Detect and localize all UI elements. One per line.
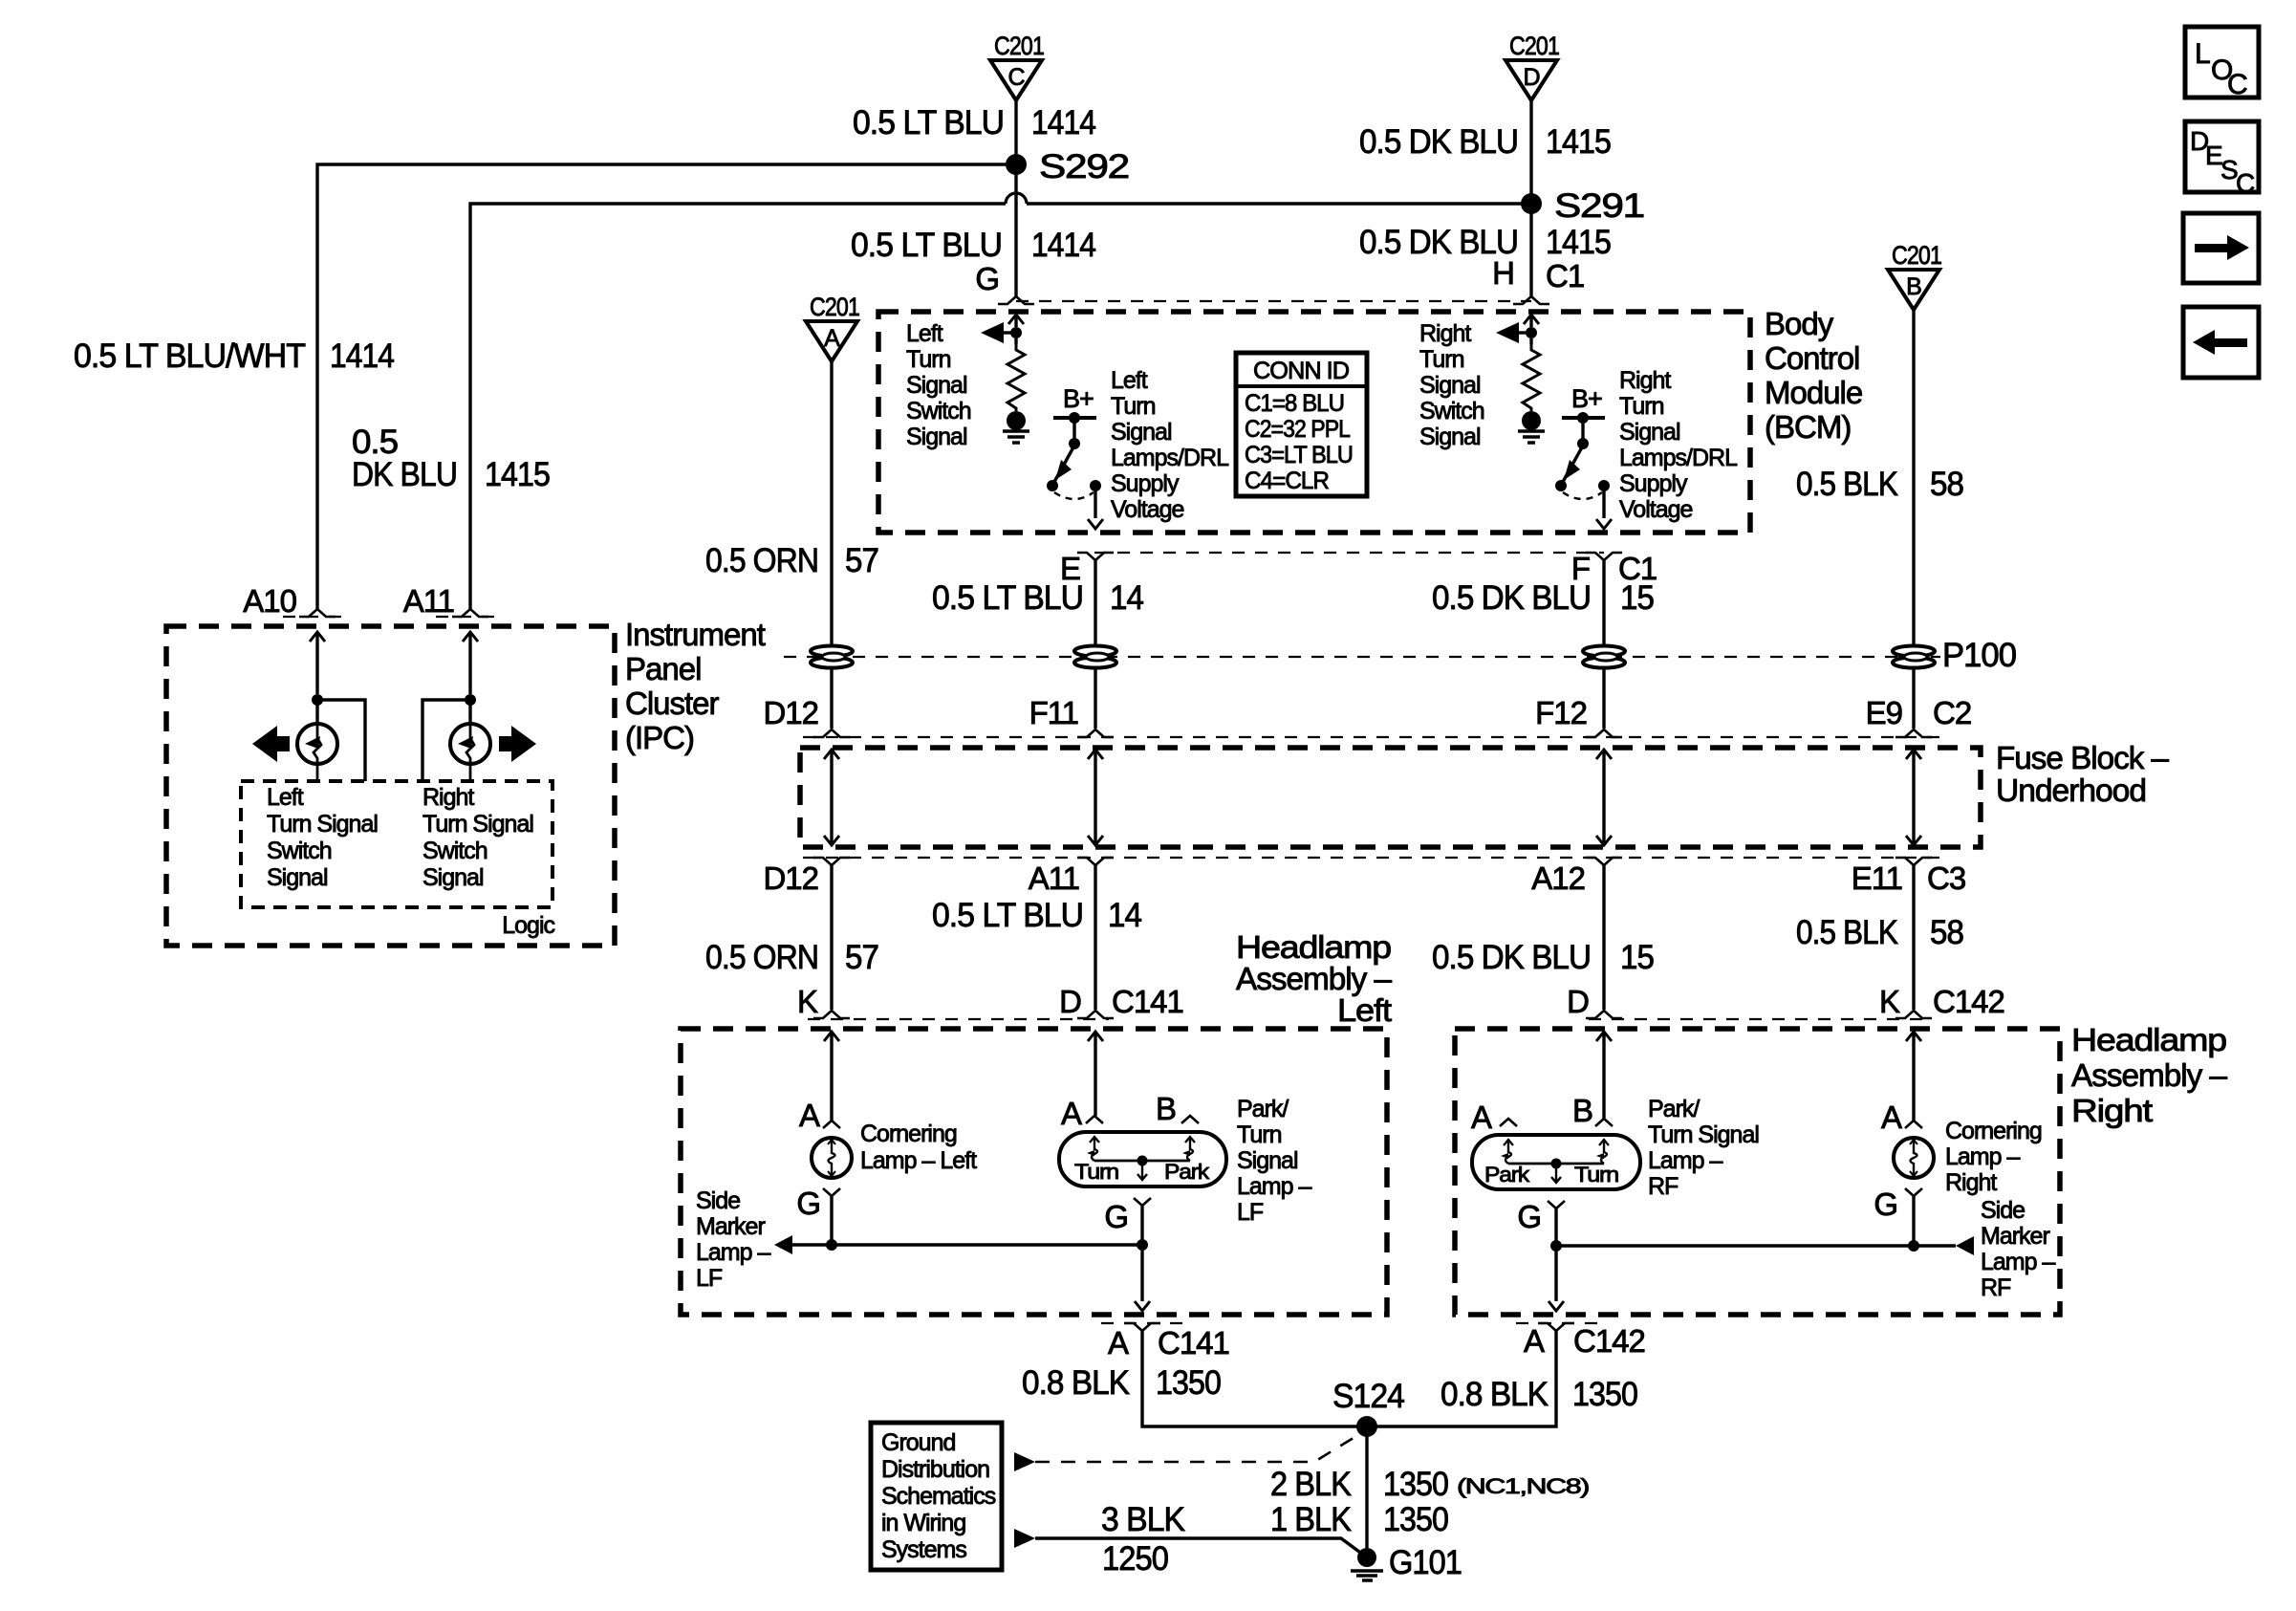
svg-text:B+: B+ [1063, 384, 1094, 413]
svg-text:C: C [2236, 168, 2255, 198]
svg-text:1350: 1350 [1572, 1376, 1637, 1413]
svg-text:C141: C141 [1112, 984, 1183, 1019]
svg-text:Switch: Switch [1419, 398, 1484, 425]
svg-text:0.5 BLK: 0.5 BLK [1796, 466, 1898, 503]
svg-text:Marker: Marker [696, 1213, 765, 1240]
ground symbol right (BCM) [1522, 411, 1541, 430]
svg-text:Turn: Turn [1619, 393, 1664, 420]
IPC logic dashed box [241, 781, 552, 907]
svg-text:15: 15 [1620, 939, 1654, 976]
wire from left switch output to E [1094, 490, 1096, 518]
svg-text:G: G [1104, 1199, 1128, 1234]
svg-text:Assembly –: Assembly – [1236, 961, 1393, 996]
svg-text:0.5 LT BLU: 0.5 LT BLU [932, 579, 1083, 617]
svg-text:1414: 1414 [330, 337, 394, 375]
C141 bottom connector dashed stub [1101, 1322, 1185, 1324]
wire from junction down to C141-A [1140, 1245, 1143, 1301]
svg-text:Turn Signal: Turn Signal [1648, 1121, 1759, 1148]
fuse block feed-through arrow at x=870 [824, 750, 839, 759]
park/turn signal lamp right (stadium) [1472, 1135, 1640, 1189]
connector chevron F11 top [1077, 729, 1114, 737]
svg-text:1415: 1415 [485, 456, 550, 493]
svg-text:(IPC): (IPC) [625, 720, 694, 755]
svg-text:0.5 DK BLU: 0.5 DK BLU [1432, 939, 1591, 976]
wire 1415 from C201-D to S291 [1529, 100, 1532, 198]
svg-text:D12: D12 [763, 860, 818, 896]
connector chevron A11 bottom [1077, 858, 1114, 865]
svg-text:Switch: Switch [267, 838, 332, 864]
svg-text:A: A [1524, 1323, 1545, 1359]
svg-text:K: K [797, 984, 818, 1019]
svg-text:Turn: Turn [1574, 1163, 1618, 1186]
connector chevron A11 (IPC) [452, 609, 488, 617]
grommet P100 on wire 15 [1583, 646, 1625, 668]
grommet P100 on wire 57 [811, 646, 853, 668]
connector chevron K left [813, 1011, 850, 1018]
junction dot park/turn G left [1137, 1239, 1148, 1251]
svg-text:C1=8 BLU: C1=8 BLU [1245, 390, 1344, 417]
svg-text:Park/: Park/ [1237, 1096, 1289, 1122]
svg-text:Switch: Switch [422, 838, 487, 864]
connector chevron D right [1586, 1011, 1622, 1018]
svg-text:15: 15 [1620, 579, 1654, 617]
connector chevron D left [1077, 1011, 1114, 1018]
svg-text:C2: C2 [1933, 695, 1971, 730]
wire 1414 from C201-C to S292 [1014, 100, 1017, 159]
grommet P100 on wire 58 [1893, 646, 1935, 668]
connector chevron E11 bottom [1895, 858, 1932, 865]
svg-text:Panel: Panel [625, 651, 701, 686]
Instrument Panel Cluster dashed box [166, 626, 615, 946]
svg-text:C2=32 PPL: C2=32 PPL [1245, 416, 1351, 443]
svg-text:Signal: Signal [906, 424, 967, 450]
wire 14 from E to fuse block [1094, 560, 1096, 729]
P100 pass-through dashed line [784, 656, 1940, 658]
svg-text:Cluster: Cluster [625, 686, 720, 721]
svg-text:Signal: Signal [422, 864, 484, 891]
svg-text:Signal: Signal [1619, 419, 1680, 446]
svg-text:(BCM): (BCM) [1765, 409, 1851, 445]
right headlamp input arrows [1596, 1032, 1612, 1041]
svg-text:G101: G101 [1389, 1544, 1462, 1581]
dashed reference line to ground distribution [1035, 1433, 1361, 1462]
DESC icon box [2185, 121, 2259, 192]
connector chevron E9 top [1895, 729, 1932, 737]
svg-text:1 BLK: 1 BLK [1270, 1501, 1352, 1538]
svg-text:0.5 LT BLU/WHT: 0.5 LT BLU/WHT [74, 337, 306, 375]
wire G cornering right down [1912, 1196, 1915, 1246]
left turn arrow icon [252, 726, 290, 762]
branch wires to logic [317, 700, 365, 781]
left turn indicator lamp (circle) [315, 700, 318, 724]
ground G101 [1357, 1548, 1376, 1567]
wire 1414 from S292 down to BCM G [1014, 164, 1017, 296]
svg-text:1414: 1414 [1031, 104, 1095, 142]
Headlamp Assembly Left dashed box [681, 1029, 1387, 1315]
svg-text:Instrument: Instrument [625, 617, 766, 652]
fuse block feed-through arrow at x=1678 [1596, 750, 1612, 759]
svg-text:Signal: Signal [1419, 424, 1481, 450]
ground symbol left (BCM) [1007, 411, 1026, 430]
svg-text:Underhood: Underhood [1996, 773, 2146, 808]
right turn indicator lamp (circle) [468, 700, 471, 724]
svg-text:1350: 1350 [1383, 1501, 1448, 1538]
svg-text:C: C [2227, 69, 2247, 100]
svg-text:C3: C3 [1927, 860, 1965, 896]
svg-text:C3=LT BLU: C3=LT BLU [1245, 442, 1353, 468]
svg-text:Right: Right [1945, 1169, 1997, 1196]
svg-text:Side: Side [1981, 1197, 2025, 1224]
svg-text:Turn: Turn [906, 346, 951, 373]
svg-text:0.5 ORN: 0.5 ORN [705, 542, 818, 579]
svg-text:DK BLU: DK BLU [352, 456, 457, 493]
svg-text:C142: C142 [1933, 984, 2004, 1019]
svg-text:Signal: Signal [1237, 1147, 1298, 1174]
switch blade left [1054, 446, 1074, 482]
wire G cornering to marker junction [830, 1196, 833, 1245]
svg-text:Signal: Signal [1419, 372, 1481, 399]
wire 57 from C201-A down to fuse block [830, 361, 833, 729]
svg-text:Left: Left [906, 320, 943, 347]
Fuse Block Underhood dashed box [800, 748, 1981, 847]
svg-text:Fuse Block –: Fuse Block – [1996, 740, 2170, 775]
svg-text:C201: C201 [994, 32, 1044, 60]
cornering lamp left (circle) [812, 1138, 852, 1178]
svg-text:58: 58 [1930, 914, 1963, 951]
svg-text:A10: A10 [243, 583, 296, 619]
svg-text:F11: F11 [1029, 695, 1078, 730]
svg-text:0.8 BLK: 0.8 BLK [1022, 1364, 1130, 1402]
left headlamp input arrows [824, 1032, 839, 1041]
fuse block feed-through arrow at x=2002 [1906, 750, 1921, 759]
svg-text:Park: Park [1484, 1163, 1530, 1186]
svg-text:S124: S124 [1332, 1378, 1405, 1415]
svg-text:57: 57 [845, 542, 878, 579]
svg-text:1250: 1250 [1102, 1540, 1168, 1578]
svg-text:Ground: Ground [881, 1429, 955, 1456]
BCM left input arrow and node [1008, 315, 1024, 324]
connector chevron C141-A [1124, 1323, 1160, 1331]
wire 57 from fuse to left headlamp [830, 865, 833, 1010]
Body Control Module dashed box [878, 312, 1750, 533]
junction dot left indicator [312, 694, 323, 706]
svg-text:G: G [1517, 1199, 1541, 1234]
svg-text:0.5 LT BLU: 0.5 LT BLU [853, 104, 1004, 142]
svg-text:Schematics: Schematics [881, 1483, 996, 1510]
svg-text:LF: LF [1237, 1199, 1264, 1226]
resistor left turn switch signal [1014, 338, 1017, 344]
connector chevron K right [1895, 1011, 1932, 1018]
connector chevron F12 top [1586, 729, 1622, 737]
svg-text:Turn: Turn [1074, 1160, 1118, 1184]
BCM C1 connector dashed line at top [1016, 300, 1531, 302]
svg-text:Signal: Signal [1111, 419, 1172, 446]
svg-text:Left: Left [267, 784, 304, 811]
svg-text:C201: C201 [810, 293, 859, 321]
svg-text:Headlamp: Headlamp [1236, 929, 1391, 965]
svg-text:Distribution: Distribution [881, 1456, 989, 1483]
lamp pin cup B park/turn right [1595, 1119, 1613, 1126]
junction dot cornering G right [1908, 1240, 1919, 1252]
wire 15 from F to fuse block [1602, 560, 1605, 729]
svg-text:Left: Left [1111, 367, 1148, 394]
side marker arrow right [1956, 1236, 1974, 1255]
svg-text:Voltage: Voltage [1111, 496, 1184, 523]
CONN ID table box [1236, 353, 1367, 496]
svg-text:B: B [1572, 1093, 1592, 1128]
svg-text:Cornering: Cornering [1945, 1118, 2042, 1144]
connector chevron F below BCM [1586, 553, 1622, 560]
svg-text:14: 14 [1108, 897, 1142, 934]
svg-text:Module: Module [1765, 375, 1862, 410]
svg-text:B: B [1906, 273, 1921, 300]
wire 58 from C201-B down to fuse block [1912, 310, 1915, 729]
svg-text:Marker: Marker [1981, 1223, 2049, 1250]
svg-text:A: A [824, 325, 840, 352]
svg-text:Systems: Systems [881, 1536, 966, 1563]
lamp pin cup G cornering right [1905, 1188, 1922, 1196]
connector chevron D12 bottom [813, 858, 850, 865]
arrow to ground distribution (dashed) [1014, 1452, 1035, 1471]
side marker arrow left [774, 1235, 792, 1254]
wire from junction down to C142-A [1554, 1246, 1557, 1301]
connector chevron G into BCM [998, 296, 1034, 304]
lamp pin cup G park/turn right [1548, 1201, 1565, 1208]
wire from S291 to IPC right (1415) with hop over 1414 wire [1027, 202, 1531, 205]
cornering lamp right (circle) [1894, 1138, 1934, 1178]
Ground Distribution Schematics box [871, 1423, 1002, 1570]
switch blade right [1563, 446, 1583, 482]
IPC connector dashed stubs [283, 616, 505, 618]
lamp pin cup A cornering right [1905, 1121, 1922, 1128]
svg-text:1350: 1350 [1383, 1466, 1448, 1503]
svg-text:Signal: Signal [906, 372, 967, 399]
grommet P100 on wire 14 [1074, 646, 1116, 668]
connector chevron E below BCM [1077, 553, 1114, 560]
svg-text:E9: E9 [1866, 695, 1902, 730]
BCM right input arrow and node [1524, 315, 1539, 324]
svg-text:Turn Signal: Turn Signal [267, 811, 378, 838]
wire C141-A to S124 [1142, 1331, 1367, 1426]
lamp pin cup G cornering left [823, 1188, 840, 1196]
svg-text:C142: C142 [1573, 1323, 1645, 1359]
Headlamp Assembly Right dashed box [1455, 1029, 2060, 1315]
arrow from ground distribution (solid) [1014, 1529, 1035, 1548]
svg-text:0.5 BLK: 0.5 BLK [1796, 914, 1898, 951]
lamp pin cup G park/turn left [1134, 1198, 1151, 1206]
svg-text:G: G [1874, 1186, 1897, 1222]
svg-text:Switch: Switch [906, 398, 971, 425]
svg-text:Park: Park [1164, 1160, 1210, 1184]
svg-text:L: L [2195, 38, 2210, 70]
svg-text:Turn: Turn [1237, 1121, 1282, 1148]
svg-text:C201: C201 [1509, 32, 1559, 60]
side marker branch wire right [1556, 1244, 1956, 1247]
right arrow icon box [2183, 213, 2259, 283]
svg-text:S292: S292 [1039, 148, 1129, 185]
svg-text:Supply: Supply [1111, 470, 1180, 497]
wire C142-A to S124 [1367, 1331, 1556, 1426]
svg-text:(NC1,NC8): (NC1,NC8) [1457, 1474, 1589, 1498]
svg-text:P100: P100 [1942, 637, 2017, 674]
connector chevron C142-A [1538, 1323, 1574, 1331]
lamp pin cup A park/turn left [1086, 1116, 1103, 1123]
svg-text:G: G [796, 1186, 820, 1221]
connector chevron H into BCM [1513, 296, 1549, 304]
svg-text:0.5 LT BLU: 0.5 LT BLU [932, 897, 1083, 934]
svg-text:RF: RF [1648, 1173, 1679, 1200]
junction dot cornering G left [826, 1239, 837, 1251]
lamp pin cup A park/turn right [1500, 1119, 1517, 1126]
svg-text:1415: 1415 [1546, 224, 1611, 261]
svg-text:D: D [1059, 984, 1081, 1019]
svg-text:Lamp – Left: Lamp – Left [860, 1147, 977, 1174]
svg-text:58: 58 [1930, 466, 1963, 503]
svg-text:RF: RF [1981, 1274, 2011, 1301]
svg-text:Right: Right [2071, 1093, 2153, 1128]
svg-text:A: A [1471, 1099, 1492, 1135]
svg-text:CONN ID: CONN ID [1253, 358, 1349, 384]
wire 1415 from S291 down to BCM H [1529, 204, 1532, 296]
IPC input arrows [310, 632, 325, 642]
svg-text:H: H [1492, 255, 1514, 291]
connector chevron A10 [299, 609, 336, 617]
C142 bottom connector dashed stub [1516, 1322, 1600, 1324]
svg-text:B: B [1156, 1091, 1176, 1126]
svg-text:C1: C1 [1546, 258, 1584, 294]
svg-text:Lamps/DRL: Lamps/DRL [1111, 445, 1229, 471]
svg-text:D: D [1523, 64, 1539, 91]
svg-text:LF: LF [696, 1265, 723, 1292]
BCM C1 connector dashed line at bottom [1094, 552, 1604, 554]
svg-text:A: A [1061, 1096, 1082, 1131]
svg-text:S291: S291 [1554, 187, 1644, 225]
splice S124 [1356, 1416, 1377, 1437]
svg-text:A: A [799, 1098, 820, 1133]
wire 58 from fuse to right headlamp [1912, 865, 1915, 1010]
svg-text:0.8 BLK: 0.8 BLK [1440, 1376, 1549, 1413]
wire G park/turn right down [1554, 1208, 1557, 1246]
svg-text:Lamp –: Lamp – [696, 1239, 770, 1266]
C141 connector dashed line [808, 1018, 1109, 1020]
connector chevron D12 top [813, 729, 850, 737]
left arrow icon box [2183, 307, 2259, 378]
right turn arrow icon [499, 726, 536, 762]
svg-text:Right: Right [1419, 320, 1471, 347]
svg-text:Lamp –: Lamp – [1648, 1147, 1722, 1174]
svg-text:0.5 LT BLU: 0.5 LT BLU [851, 227, 1002, 264]
svg-text:E11: E11 [1852, 860, 1902, 896]
svg-text:Side: Side [696, 1187, 740, 1214]
svg-text:Lamp –: Lamp – [1945, 1143, 2020, 1170]
wire 14 from fuse to left headlamp [1094, 865, 1096, 1010]
lamp pin cup A cornering left [823, 1121, 840, 1128]
svg-text:Cornering: Cornering [860, 1121, 957, 1147]
svg-text:Turn: Turn [1111, 393, 1156, 420]
wire from S292 to IPC left (1414) [317, 164, 1016, 609]
svg-text:D12: D12 [763, 695, 818, 730]
splice S291 [1521, 193, 1542, 214]
svg-text:Headlamp: Headlamp [2071, 1022, 2226, 1057]
svg-text:1350: 1350 [1156, 1364, 1221, 1402]
junction dot right indicator [465, 694, 476, 706]
svg-text:0.5 ORN: 0.5 ORN [705, 939, 818, 976]
svg-text:Lamp –: Lamp – [1237, 1173, 1311, 1200]
fuse block bottom connector dashed line [803, 857, 1940, 859]
svg-text:A: A [1881, 1099, 1902, 1135]
svg-text:A11: A11 [1029, 860, 1079, 896]
lamp pin cup B park/turn left [1181, 1116, 1199, 1123]
svg-text:0.5 DK BLU: 0.5 DK BLU [1432, 579, 1591, 617]
svg-text:C: C [1007, 64, 1025, 91]
svg-text:Left: Left [1337, 992, 1392, 1028]
side marker branch wire left [791, 1243, 1142, 1246]
svg-text:D: D [1567, 984, 1589, 1019]
svg-text:A: A [1108, 1325, 1129, 1361]
junction dot park/turn G right [1550, 1240, 1562, 1252]
wire from right switch output to F [1602, 490, 1605, 518]
park/turn signal lamp left (stadium) [1059, 1132, 1226, 1186]
svg-text:3 BLK: 3 BLK [1101, 1501, 1185, 1538]
svg-text:Control: Control [1765, 340, 1859, 376]
svg-text:C4=CLR: C4=CLR [1245, 468, 1329, 494]
svg-text:Lamps/DRL: Lamps/DRL [1619, 445, 1738, 471]
wire 3 BLK 1250 to G101 [1035, 1538, 1363, 1555]
wire S124 down to G101 [1365, 1426, 1368, 1557]
svg-text:F12: F12 [1535, 695, 1587, 730]
svg-text:C141: C141 [1158, 1325, 1229, 1361]
svg-text:in Wiring: in Wiring [881, 1510, 965, 1536]
svg-text:Lamp –: Lamp – [1981, 1249, 2055, 1275]
svg-text:Body: Body [1765, 306, 1834, 341]
svg-text:G: G [975, 261, 999, 296]
svg-text:Turn Signal: Turn Signal [422, 811, 533, 838]
connector chevron A12 bottom [1586, 858, 1622, 865]
fuse block feed-through arrow at x=1146 [1088, 750, 1103, 759]
svg-text:Right: Right [1619, 367, 1671, 394]
svg-text:Park/: Park/ [1648, 1096, 1700, 1122]
svg-text:B+: B+ [1571, 384, 1602, 413]
svg-text:Right: Right [422, 784, 474, 811]
wire 15 from fuse to right headlamp [1602, 865, 1605, 1010]
C142 connector dashed line [1589, 1018, 1931, 1020]
svg-text:K: K [1879, 984, 1900, 1019]
svg-text:1414: 1414 [1031, 227, 1095, 264]
svg-text:C201: C201 [1892, 241, 1941, 270]
svg-text:A11: A11 [403, 583, 454, 619]
splice S292 [1006, 154, 1027, 175]
svg-text:57: 57 [845, 939, 878, 976]
svg-text:Voltage: Voltage [1619, 496, 1693, 523]
svg-text:Assembly –: Assembly – [2071, 1057, 2228, 1093]
svg-text:1415: 1415 [1546, 123, 1611, 161]
svg-text:Supply: Supply [1619, 470, 1688, 497]
svg-text:A12: A12 [1531, 860, 1585, 896]
resistor right turn switch signal [1529, 338, 1532, 344]
svg-text:14: 14 [1110, 579, 1144, 617]
LOC icon box [2185, 27, 2259, 98]
svg-text:2 BLK: 2 BLK [1270, 1466, 1352, 1503]
fuse block top connector dashed line [803, 736, 1940, 738]
wire G park/turn to marker junction [1140, 1206, 1143, 1245]
svg-text:0.5 DK BLU: 0.5 DK BLU [1359, 123, 1518, 161]
svg-text:Signal: Signal [267, 864, 328, 891]
svg-text:Turn: Turn [1419, 346, 1464, 373]
svg-text:Logic: Logic [502, 912, 554, 939]
